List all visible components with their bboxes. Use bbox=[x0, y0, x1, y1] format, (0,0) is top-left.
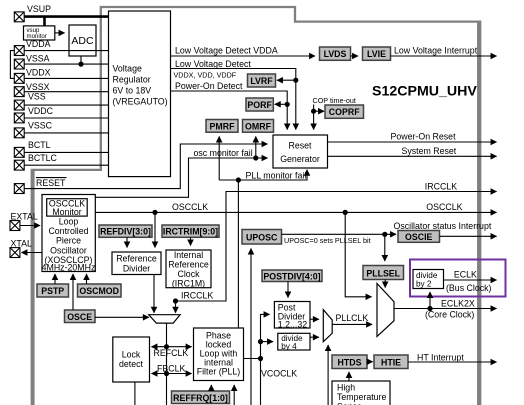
wire PLLSEL to clock mux select bbox=[384, 280, 386, 288]
wire Post Divider to pllclk mux bbox=[310, 318, 319, 320]
junction dot ADC-VSSA bbox=[78, 62, 83, 67]
wire Power-On Reset output bbox=[328, 141, 497, 143]
svg-text:VSSX: VSSX bbox=[26, 82, 50, 92]
pin VSSC bbox=[14, 128, 24, 138]
svg-text:1,2,..32: 1,2,..32 bbox=[278, 319, 307, 329]
svg-text:PLLSEL: PLLSEL bbox=[366, 268, 400, 278]
svg-text:ECLK2X: ECLK2X bbox=[441, 299, 475, 309]
wire IRCCLK output bbox=[176, 192, 497, 302]
svg-text:Reference: Reference bbox=[116, 254, 157, 264]
block Voltage Regulator VREGAUTO bbox=[109, 11, 171, 177]
svg-text:IRCTRIM[9:0]: IRCTRIM[9:0] bbox=[163, 227, 218, 237]
junction dot FBCLK bbox=[164, 371, 169, 376]
wire Oscillator status Interrupt output bbox=[440, 235, 497, 237]
svg-text:BCTLC: BCTLC bbox=[28, 153, 57, 163]
svg-text:High: High bbox=[337, 383, 355, 393]
svg-text:VDDC: VDDC bbox=[28, 106, 54, 116]
svg-text:Power-On Detect: Power-On Detect bbox=[175, 81, 243, 91]
wire OSCMOD riser bbox=[86, 274, 88, 284]
wire BCTLC bbox=[24, 164, 108, 166]
block UPOSC register bbox=[242, 230, 282, 245]
block Reference Divider bbox=[112, 252, 161, 275]
mux pllclk (trapezoid) bbox=[323, 310, 332, 342]
wire BCTL bbox=[24, 151, 108, 153]
mux refclk (trapezoid) bbox=[149, 315, 180, 323]
svg-text:OMRF: OMRF bbox=[245, 121, 272, 131]
block PLL bbox=[194, 328, 244, 381]
block Internal Reference Clock IRC1M bbox=[166, 250, 211, 289]
wire PSTP riser bbox=[54, 274, 56, 284]
svg-text:OSCCLK: OSCCLK bbox=[172, 202, 208, 212]
wire IRCTRIM to IRC1M bbox=[190, 237, 192, 245]
junction dot PORF bbox=[285, 102, 290, 107]
svg-text:Regulator: Regulator bbox=[113, 75, 151, 85]
svg-text:(Core Clock): (Core Clock) bbox=[425, 310, 474, 320]
wire Lock detect bottom bbox=[134, 382, 136, 405]
svg-text:by 4: by 4 bbox=[281, 342, 297, 351]
wire HT Interrupt output bbox=[408, 361, 497, 363]
junction dot OSCCLK to RefDiv bbox=[152, 210, 157, 215]
svg-text:6V to 18V: 6V to 18V bbox=[113, 86, 152, 96]
block Reset Generator bbox=[273, 135, 328, 168]
wire Low Voltage Interrupt bbox=[391, 55, 497, 57]
wire OSCCLK output bbox=[95, 211, 496, 213]
svg-text:LVDS: LVDS bbox=[324, 49, 347, 59]
block POSTDIV register bbox=[262, 270, 322, 282]
pin VSUP bbox=[14, 12, 24, 22]
pin VSSA bbox=[14, 59, 24, 69]
wire VSSX bbox=[24, 91, 108, 93]
svg-text:EXTAL: EXTAL bbox=[11, 211, 38, 221]
pin EXTAL bbox=[10, 221, 20, 231]
svg-text:ADC: ADC bbox=[71, 35, 94, 47]
svg-text:(VREGAUTO): (VREGAUTO) bbox=[113, 97, 168, 107]
svg-text:PLL monitor fail: PLL monitor fail bbox=[246, 171, 307, 181]
wire RESET to Reset Generator bbox=[24, 144, 267, 189]
svg-text:OSCE: OSCE bbox=[67, 312, 92, 322]
block ADC bbox=[69, 25, 96, 56]
svg-text:divide: divide bbox=[416, 271, 438, 280]
svg-text:Monitor: Monitor bbox=[52, 207, 81, 217]
wire VDDC bbox=[24, 117, 108, 119]
wire osc monitor fail bbox=[95, 158, 267, 197]
wire riser to divide by 2 bbox=[429, 292, 431, 309]
svg-text:IRCCLK: IRCCLK bbox=[425, 182, 457, 192]
wire VSUP thick bbox=[24, 17, 110, 26]
wire Reference Divider to refclk mux bbox=[153, 275, 155, 313]
svg-text:PLLCLK: PLLCLK bbox=[336, 313, 369, 323]
svg-text:REFDIV[3:0]: REFDIV[3:0] bbox=[100, 227, 151, 237]
wire PLLCLK bbox=[332, 323, 372, 325]
pin XTAL bbox=[10, 248, 20, 258]
junction dot OMRF branch bbox=[253, 155, 258, 160]
svg-text:OSCMOD: OSCMOD bbox=[79, 286, 119, 296]
svg-text:Clock: Clock bbox=[178, 269, 201, 279]
wire High Temperature Sense to HTDS bbox=[348, 372, 350, 381]
wire VCOCLK from PLL bbox=[244, 358, 261, 360]
svg-text:Low Voltage Detect VDDA: Low Voltage Detect VDDA bbox=[175, 46, 278, 56]
bracket VDDA-VDDX bbox=[10, 51, 14, 79]
block OMRF bbox=[243, 120, 274, 133]
svg-text:Filter (PLL): Filter (PLL) bbox=[197, 366, 241, 376]
svg-text:Oscillator status Interrupt: Oscillator status Interrupt bbox=[394, 221, 492, 231]
svg-text:XTAL: XTAL bbox=[11, 238, 32, 248]
junction dot ECLK2X-divide2 bbox=[427, 306, 432, 311]
svg-text:COPRF: COPRF bbox=[329, 107, 360, 117]
svg-text:Power-On Reset: Power-On Reset bbox=[391, 132, 457, 142]
block divide by 4 bbox=[278, 333, 310, 351]
wire VDDA bbox=[24, 50, 108, 52]
svg-text:FBCLK: FBCLK bbox=[157, 363, 185, 373]
block Post Divider bbox=[274, 302, 310, 330]
block PORF bbox=[246, 98, 273, 111]
svg-text:Divider: Divider bbox=[123, 264, 150, 274]
pin BCTL bbox=[14, 147, 24, 157]
svg-text:POSTDIV[4:0]: POSTDIV[4:0] bbox=[263, 271, 320, 281]
wire OSCCLK riser to Reference Divider bbox=[154, 212, 156, 247]
svg-text:Reset: Reset bbox=[289, 141, 313, 151]
svg-text:Loop: Loop bbox=[59, 216, 79, 226]
svg-text:LVRF: LVRF bbox=[250, 76, 273, 86]
wire System Reset output bbox=[328, 155, 497, 157]
svg-text:REFCLK: REFCLK bbox=[154, 348, 189, 358]
block Loop Controlled Pierce Oscillator bbox=[42, 195, 96, 273]
wire VSS bbox=[24, 104, 108, 106]
svg-text:VSSC: VSSC bbox=[28, 121, 53, 131]
wire VCOCLK to divide by 4 bbox=[261, 341, 274, 343]
wire VDDX bbox=[24, 77, 108, 79]
svg-text:UPOSC=0 sets PLLSEL bit: UPOSC=0 sets PLLSEL bit bbox=[284, 236, 371, 245]
wire PLLSEL riser bbox=[384, 234, 386, 261]
wire PMRF riser bbox=[218, 137, 220, 181]
svg-text:OSCIE: OSCIE bbox=[405, 232, 433, 242]
label RESET with overline bbox=[36, 178, 67, 188]
block LVDS bbox=[320, 47, 351, 60]
pin VSS bbox=[14, 100, 24, 110]
wire EXTAL bbox=[20, 225, 40, 227]
wire VSSA bbox=[24, 63, 108, 65]
block OSCIE register bbox=[398, 231, 440, 243]
block Lock detect bbox=[113, 337, 150, 382]
svg-text:by 2: by 2 bbox=[416, 280, 432, 289]
wire POSTDIV to Post Divider bbox=[287, 282, 289, 298]
junction dot VCOCLK lower bbox=[258, 356, 263, 361]
wire LVDS to LVIE bbox=[351, 55, 359, 57]
wire ECLK output bbox=[444, 279, 497, 281]
block HTDS register bbox=[332, 355, 367, 369]
wire FBCLK double arrow bbox=[152, 373, 192, 375]
svg-text:OSCCLK: OSCCLK bbox=[426, 202, 462, 212]
svg-text:HT Interrupt: HT Interrupt bbox=[417, 352, 464, 362]
svg-text:VCOCLK: VCOCLK bbox=[261, 369, 297, 379]
svg-text:(Bus Clock): (Bus Clock) bbox=[446, 283, 492, 293]
purple highlight box bbox=[410, 260, 506, 297]
svg-text:detect: detect bbox=[119, 359, 144, 369]
pin VDDX bbox=[14, 73, 24, 83]
block High Temperature Sense bbox=[332, 381, 390, 405]
block REFDIV register bbox=[99, 225, 152, 237]
svg-text:4MHz-20MHz: 4MHz-20MHz bbox=[42, 263, 96, 273]
wire Low Voltage Detect VDDA bbox=[171, 55, 316, 57]
wire PLL monitor riser to PLL bbox=[237, 180, 239, 328]
svg-text:Generator: Generator bbox=[280, 154, 320, 164]
pin VSSX bbox=[14, 87, 24, 97]
junction dot IRCCLK bbox=[173, 298, 178, 303]
wire UPOSC to OSCIE bbox=[282, 233, 397, 235]
svg-text:VSS: VSS bbox=[28, 92, 46, 102]
svg-text:VSUP: VSUP bbox=[27, 4, 51, 14]
block OSCMOD register bbox=[78, 284, 122, 297]
wire clock mux output ECLK2X bbox=[394, 308, 497, 310]
svg-text:REFFRQ[1:0]: REFFRQ[1:0] bbox=[173, 393, 228, 403]
wire VCOCLK riser bbox=[261, 314, 270, 405]
wire HTDS to HTIE bbox=[367, 361, 373, 363]
junction dot LVRF bbox=[293, 78, 298, 83]
svg-text:PORF: PORF bbox=[247, 100, 272, 110]
svg-text:IRCCLK: IRCCLK bbox=[181, 290, 213, 300]
wire vsup monitor to ADC bbox=[55, 32, 65, 34]
wire REFFRQ to PLL bbox=[210, 385, 212, 391]
wire VSSC bbox=[24, 132, 108, 134]
block PMRF bbox=[206, 120, 238, 133]
svg-text:BCTL: BCTL bbox=[28, 140, 51, 150]
svg-text:Lock: Lock bbox=[122, 350, 141, 360]
wire refclk mux output bbox=[166, 323, 168, 405]
block OSCCLK Monitor bbox=[47, 198, 87, 217]
svg-text:S12CPMU_UHV: S12CPMU_UHV bbox=[372, 83, 477, 99]
wire Low Voltage Detect bbox=[171, 69, 296, 130]
wire divide by 4 to pllclk mux bbox=[310, 336, 319, 338]
svg-text:VSSA: VSSA bbox=[26, 54, 50, 64]
svg-text:Internal: Internal bbox=[174, 250, 203, 260]
block OSCE register bbox=[65, 310, 96, 323]
junction dot PLL monitor bbox=[236, 177, 241, 182]
svg-text:VDDA: VDDA bbox=[26, 39, 51, 49]
block PSTP register bbox=[37, 284, 69, 297]
svg-text:UPOSC: UPOSC bbox=[246, 233, 278, 243]
svg-text:COP time-out: COP time-out bbox=[313, 96, 356, 105]
svg-text:PMRF: PMRF bbox=[210, 121, 236, 131]
svg-text:LVIE: LVIE bbox=[367, 49, 386, 59]
wire ADC ground stub bbox=[80, 56, 82, 64]
wire REFCLK double arrow bbox=[152, 346, 192, 348]
svg-text:HTDS: HTDS bbox=[338, 357, 362, 367]
block LVIE bbox=[363, 47, 391, 60]
wire second arrow to PLL bottom bbox=[233, 385, 235, 405]
svg-text:Oscillator: Oscillator bbox=[50, 245, 87, 255]
svg-text:Temperature: Temperature bbox=[337, 392, 386, 402]
svg-text:PSTP: PSTP bbox=[41, 286, 64, 296]
svg-text:VDDX: VDDX bbox=[26, 68, 51, 78]
svg-text:Voltage: Voltage bbox=[113, 64, 142, 74]
svg-text:Pierce: Pierce bbox=[56, 236, 81, 246]
svg-text:HTIE: HTIE bbox=[381, 357, 401, 367]
wire IRCCLK into refclk mux bbox=[175, 301, 177, 313]
svg-text:Controlled: Controlled bbox=[48, 226, 88, 236]
wire PLL monitor fail bbox=[219, 170, 307, 180]
wire into LVRF bbox=[277, 79, 296, 81]
block PLLSEL register bbox=[363, 266, 404, 280]
wire XTAL bbox=[22, 252, 43, 254]
wire COP time-out bbox=[313, 105, 315, 130]
wire UPOSC riser bbox=[250, 249, 252, 405]
junction dot UPOSC-PLLSEL bbox=[382, 232, 387, 237]
junction dot COPRF bbox=[311, 109, 316, 114]
svg-text:osc monitor fail: osc monitor fail bbox=[194, 148, 253, 158]
block COPRF bbox=[325, 105, 364, 118]
wire Power-On Detect bbox=[171, 91, 288, 130]
svg-text:RESET: RESET bbox=[36, 178, 66, 188]
wire pllclk mux select riser bbox=[327, 345, 329, 405]
wire OSCE to refclk mux select bbox=[95, 316, 149, 318]
wire REFDIV to Reference Divider bbox=[126, 237, 128, 247]
junction dot OSCCLK to mux bbox=[343, 210, 348, 215]
pin VDDA bbox=[14, 46, 24, 56]
junction dot VCOCLK upper bbox=[258, 339, 263, 344]
block divide by 2 bbox=[413, 270, 444, 289]
wire OMRF riser bbox=[255, 137, 257, 159]
pin VDDC bbox=[14, 113, 24, 123]
svg-text:System Reset: System Reset bbox=[402, 146, 457, 156]
block LVRF bbox=[248, 74, 276, 87]
wire OSCCLK to clock mux bbox=[345, 212, 371, 296]
block IRCTRIM register bbox=[162, 225, 219, 237]
junction dot REFCLK bbox=[164, 344, 169, 349]
pin BCTLC bbox=[14, 160, 24, 170]
svg-text:ECLK: ECLK bbox=[454, 269, 477, 279]
block REFFRQ register bbox=[172, 391, 230, 404]
svg-text:(IRC1M): (IRC1M) bbox=[172, 279, 205, 289]
svg-text:Low Voltage Interrupt: Low Voltage Interrupt bbox=[394, 46, 478, 56]
block HTIE register bbox=[374, 355, 408, 369]
pin RESET bbox=[14, 184, 24, 194]
wire into PORF bbox=[275, 103, 287, 105]
svg-text:Low Voltage Detect: Low Voltage Detect bbox=[175, 59, 251, 69]
mux clock select (trapezoid) bbox=[377, 284, 394, 337]
block vsup monitor bbox=[24, 26, 55, 40]
svg-text:Reference: Reference bbox=[168, 260, 209, 270]
wire OSCE riser bbox=[72, 274, 74, 310]
wire into COPRF bbox=[314, 110, 324, 112]
svg-text:VDDX, VDD, VDDF: VDDX, VDD, VDDF bbox=[174, 71, 237, 80]
